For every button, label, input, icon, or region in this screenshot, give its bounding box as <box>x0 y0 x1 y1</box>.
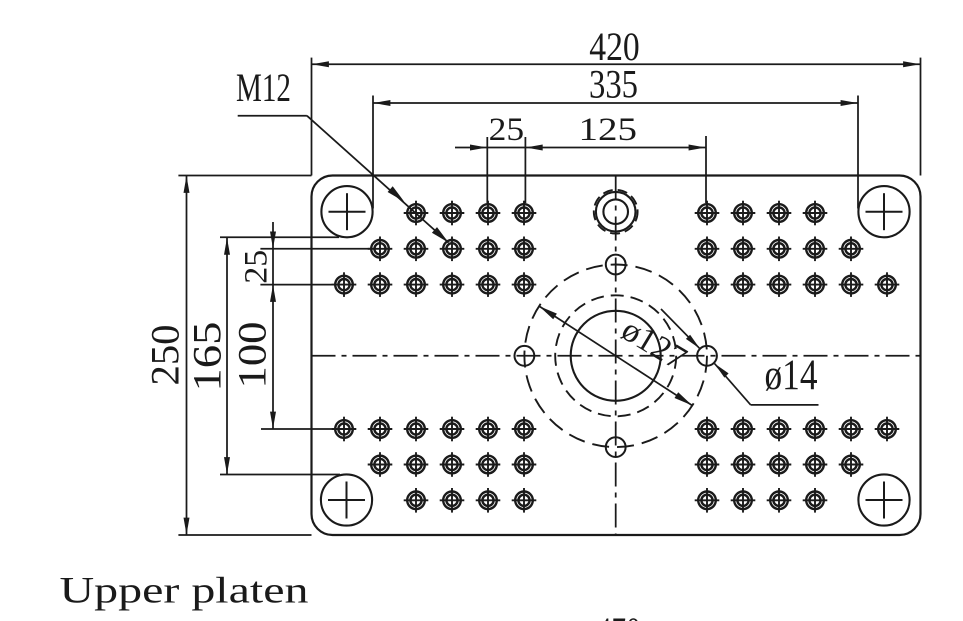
svg-text:125: 125 <box>579 112 638 148</box>
svg-text:335: 335 <box>589 62 638 107</box>
svg-text:165: 165 <box>184 322 229 392</box>
svg-text:100: 100 <box>229 322 274 389</box>
svg-text:25: 25 <box>238 250 274 284</box>
svg-text:470: 470 <box>597 610 641 621</box>
svg-text:250: 250 <box>142 325 187 386</box>
svg-text:25: 25 <box>489 112 525 148</box>
svg-text:Upper platen: Upper platen <box>60 571 309 612</box>
svg-text:ø14: ø14 <box>765 352 818 399</box>
svg-text:M12: M12 <box>236 65 291 110</box>
